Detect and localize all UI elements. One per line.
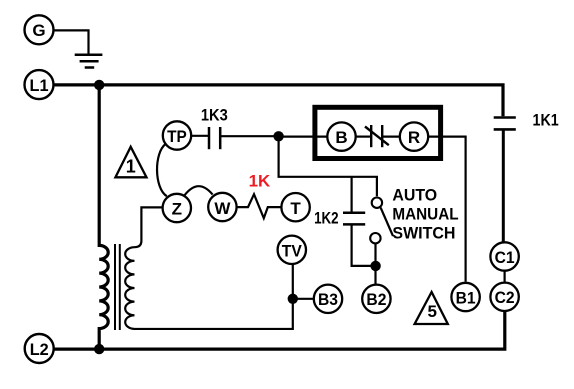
wire 1K1 to C1 [502, 129, 505, 243]
wire top bus to 1K1 [99, 85, 503, 116]
capacitor 1K3 [209, 127, 220, 149]
svg-text:1K: 1K [249, 171, 271, 190]
svg-text:1: 1 [126, 156, 136, 176]
node B3 junction [288, 294, 298, 304]
wire node A to coil B [279, 136, 328, 138]
svg-text:AUTO: AUTO [392, 186, 437, 205]
svg-text:T: T [290, 199, 301, 218]
label switch [392, 186, 458, 243]
triangle 1 [115, 147, 146, 178]
wire TV to node B3 [292, 264, 294, 299]
triangle 5 [415, 292, 448, 324]
svg-text:Z: Z [172, 199, 182, 218]
wire left bus with transformer primary winding [99, 85, 108, 349]
resistor 1K [237, 194, 282, 218]
wire L1 lead [54, 83, 100, 86]
node L2 junction [94, 344, 104, 354]
relay coil TP [163, 121, 191, 149]
wire 1K3 to node A [220, 135, 278, 137]
svg-text:L2: L2 [30, 340, 49, 359]
terminal B3 [314, 285, 342, 313]
coil R [400, 122, 428, 150]
svg-text:W: W [214, 199, 231, 218]
node L1 junction [94, 80, 104, 90]
svg-text:5: 5 [427, 302, 436, 321]
svg-text:1K2: 1K2 [314, 209, 339, 228]
wire R to B1 [428, 137, 465, 282]
wire node A down and right to switch [279, 136, 377, 196]
relay coil T [281, 193, 309, 221]
svg-text:C2: C2 [495, 288, 515, 307]
coil B [327, 122, 355, 150]
wire TP to 1K3 [191, 135, 209, 137]
terminal C1 [490, 242, 518, 270]
svg-text:C1: C1 [495, 248, 515, 267]
wire 1K2 top lead [351, 177, 353, 212]
svg-text:B3: B3 [318, 290, 338, 309]
transformer secondary winding with leads to Z and node B3 [125, 207, 293, 329]
NC contact [365, 125, 389, 147]
terminal B2 [362, 285, 390, 313]
wire contact to R [382, 136, 400, 138]
svg-text:B: B [335, 128, 347, 147]
svg-text:1K3: 1K3 [201, 105, 228, 124]
relay box outline [315, 107, 441, 158]
svg-text:TV: TV [282, 241, 303, 260]
relay coil Z [163, 194, 191, 222]
wire C1 to C2 [504, 271, 506, 283]
relay coil W [208, 193, 236, 221]
terminal C2 [490, 283, 518, 311]
svg-text:MANUAL: MANUAL [392, 205, 458, 224]
svg-text:SWITCH: SWITCH [392, 223, 455, 242]
node A [273, 131, 283, 141]
wire Z to W arc [185, 186, 213, 195]
terminal L1 [25, 70, 54, 99]
switch S auto/manual [370, 198, 393, 244]
wire C2 to bottom bus [54, 311, 505, 349]
svg-text:TP: TP [167, 127, 187, 146]
terminal B1 [451, 283, 479, 311]
svg-text:G: G [32, 21, 45, 40]
wire node to B3 [293, 298, 314, 300]
wire TP to Z arc [157, 144, 167, 196]
transformer core [115, 244, 120, 330]
capacitor 1K1 [494, 118, 516, 130]
capacitor 1K2 [343, 213, 365, 225]
svg-text:B1: B1 [456, 288, 476, 307]
relay coil TV [278, 236, 306, 264]
svg-text:B2: B2 [366, 290, 386, 309]
wire 1K2 bottom lead [352, 224, 376, 266]
terminal G [25, 15, 54, 44]
terminal L2 [25, 334, 54, 363]
wire switch to B2 [374, 243, 376, 284]
wire G to ground [54, 30, 89, 54]
ground [75, 55, 103, 68]
node B2 junction [370, 261, 380, 271]
svg-text:R: R [408, 128, 420, 147]
svg-text:L1: L1 [30, 76, 49, 95]
svg-text:1K1: 1K1 [533, 110, 559, 129]
wire B to contact [356, 136, 372, 138]
